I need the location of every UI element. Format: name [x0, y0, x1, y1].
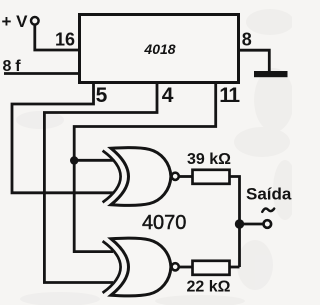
svg-text:5: 5	[96, 84, 108, 107]
svg-text:8 f: 8 f	[3, 58, 22, 75]
svg-text:+ V: + V	[2, 12, 29, 31]
svg-text:4070: 4070	[142, 212, 187, 234]
svg-text:16: 16	[55, 30, 75, 50]
svg-text:4018: 4018	[143, 41, 175, 57]
svg-text:4: 4	[162, 84, 174, 107]
svg-text:8: 8	[242, 29, 252, 49]
svg-text:Saída: Saída	[246, 185, 292, 204]
svg-text:11: 11	[219, 84, 240, 107]
svg-text:39 kΩ: 39 kΩ	[187, 151, 231, 168]
svg-text:22 kΩ: 22 kΩ	[187, 279, 231, 296]
